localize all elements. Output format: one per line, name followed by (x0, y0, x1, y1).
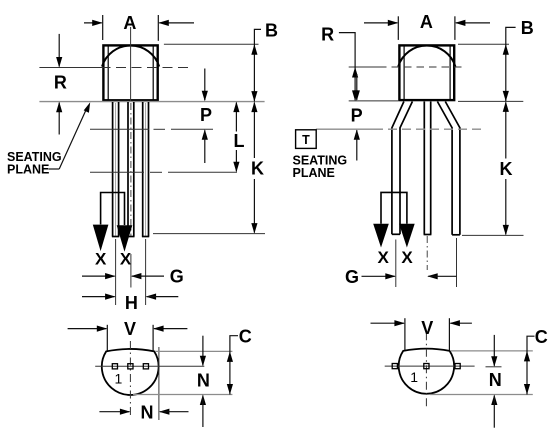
horizontal centerline (left view) (39, 67, 100, 69)
svg-text:P: P (351, 106, 363, 126)
svg-text:H: H (125, 293, 138, 313)
svg-text:L: L (234, 131, 245, 151)
dimension V (bottom view right) (371, 318, 472, 350)
dimension B (left view) (164, 43, 259, 45)
section arrow X left (right view) (373, 224, 389, 248)
dashed line at lead standoff (left view) (90, 171, 237, 173)
svg-text:V: V (124, 319, 136, 339)
datum T box (right view) (296, 130, 317, 149)
flat-top extension line (bottom view right) (451, 350, 533, 352)
dimension C (bottom view left) (230, 336, 238, 395)
svg-text:X: X (120, 249, 132, 268)
section arrow X right (left view) (117, 225, 133, 252)
seating plane leader arrow (left view) (49, 168, 60, 170)
package D-shape outline (bottom view left) (102, 349, 159, 395)
body inner wall lines (right view) (404, 46, 450, 100)
dimension A (left view) (84, 15, 194, 41)
G extension lines (right view) (396, 238, 457, 287)
dimension H (left view) (82, 296, 115, 298)
dimension V (bottom view left) (68, 325, 188, 351)
dimension N (bottom view right) (493, 335, 495, 366)
center lead dash-dot extension (right view) (426, 236, 428, 270)
section arrow X right (right view) (399, 224, 415, 248)
svg-text:PLANE: PLANE (293, 166, 335, 180)
seating plane line (right view) (316, 128, 374, 130)
svg-text:T: T (302, 133, 310, 147)
svg-text:K: K (500, 159, 513, 179)
right edge extension line (bottom view left) (158, 347, 160, 420)
svg-text:1: 1 (410, 369, 418, 385)
lead 3 (left view, straight) (142, 102, 149, 237)
lead cross-section square 1 (bottom view left) (112, 364, 117, 369)
package body outline (right view) (399, 45, 454, 100)
dimension A (right view) (364, 16, 490, 40)
svg-text:R: R (321, 25, 334, 45)
horizontal centerline (bottom view right) (385, 365, 475, 367)
lead cross-section square left (bottom view right) (392, 364, 397, 369)
section X-X bracket (right view) (381, 192, 407, 223)
dimension C (bottom view right) (527, 336, 535, 394)
lead 1 formed (right view) (392, 102, 413, 235)
dimension K (right view) (505, 102, 507, 158)
lead cross-section square right (bottom view right) (455, 364, 460, 369)
svg-text:G: G (345, 267, 359, 287)
svg-text:B: B (521, 18, 534, 38)
K bottom extension line (right view) (462, 234, 524, 236)
svg-text:C: C (535, 327, 548, 347)
lead 3 formed (right view) (437, 102, 460, 235)
svg-text:N: N (141, 403, 154, 423)
svg-text:R: R (54, 72, 67, 92)
svg-text:G: G (170, 266, 184, 286)
svg-text:X: X (401, 248, 413, 267)
bottom extension line (bottom view right) (430, 394, 533, 396)
dimension R (left view) (58, 34, 60, 67)
dimension G (left view) (82, 275, 115, 277)
dimension L (left view) (235, 103, 237, 132)
vertical dash-dot centerline (bottom view right) (425, 332, 427, 407)
vertical centerline (left view) (130, 27, 132, 101)
svg-text:1: 1 (115, 370, 123, 386)
seating plane line (left view) (39, 101, 264, 103)
dimension P (right view) (356, 74, 358, 100)
lead cross-section square center (bottom view right) (424, 364, 429, 369)
bottom extension line for R/P (right view) (349, 100, 399, 102)
package D-shape outline (bottom view right) (399, 349, 454, 394)
lead 2 straight center (right view) (424, 102, 432, 235)
dimension P (left view) (204, 69, 206, 101)
lead cross-section square 2 (bottom view left) (128, 364, 133, 369)
svg-text:A: A (123, 13, 136, 33)
svg-text:N: N (197, 371, 210, 391)
R extension line (right view) (349, 66, 379, 68)
dimension N horizontal (bottom view left) (99, 411, 129, 413)
G/H extension lines (left view) (116, 239, 146, 305)
lead cross-section square 3 (bottom view left) (143, 364, 148, 369)
bottom extension line (bottom view left) (133, 394, 232, 396)
K bottom extension line (left view) (153, 233, 265, 235)
lead 1 (left view, straight) (112, 102, 119, 237)
section arrow X left (left view) (93, 225, 109, 252)
svg-text:K: K (251, 158, 264, 178)
svg-text:C: C (239, 327, 252, 347)
svg-text:X: X (95, 249, 107, 268)
svg-text:P: P (200, 105, 212, 125)
body dome arcs (right view) (398, 46, 455, 67)
body inner wall lines (left view) (108, 46, 153, 101)
svg-text:N: N (489, 370, 502, 390)
horizontal centerline (bottom view left) (95, 365, 204, 367)
lead 2 dash-dot centerline (130, 103, 132, 236)
dimension N vertical (bottom view left) (202, 336, 204, 366)
svg-text:V: V (421, 318, 433, 338)
svg-text:B: B (265, 20, 278, 40)
short centerline segment under N arrow (bottom view right) (486, 366, 502, 368)
svg-text:X: X (378, 248, 390, 267)
body dome arcs (left view) (102, 46, 159, 67)
flat-top extension line (bottom view left) (155, 350, 232, 352)
svg-text:PLANE: PLANE (7, 163, 49, 177)
dimension K (left view) (253, 103, 255, 158)
vertical dash-dot centerline (bottom view left) (129, 341, 131, 418)
section X-X bracket (left view) (101, 193, 125, 226)
package body outline (left view) (103, 45, 157, 100)
dashed horizontal centerline (right view) (379, 66, 462, 68)
lead 2 center (left view, straight) (127, 102, 134, 237)
svg-text:A: A (420, 12, 433, 32)
dimension B (right view) (458, 43, 509, 45)
